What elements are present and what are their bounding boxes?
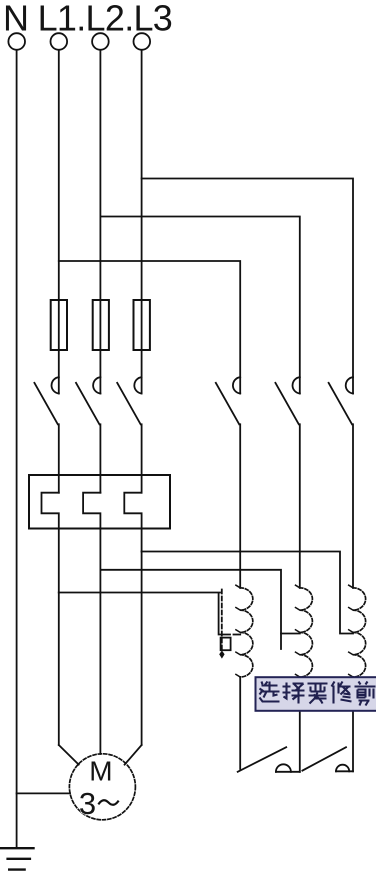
contact KM1-3 arc [134,377,141,393]
coil T2 winding (selected, dashed) [300,588,313,677]
terminal L3 [134,33,151,50]
contact KM2-3 arc [346,377,353,393]
wire L2 tap branch [100,570,281,649]
cursor pickbox [221,638,231,651]
wire L2 below contact [99,424,101,492]
wire coil2 tap horizontal [281,633,300,635]
wire coil1 bottom vertical [239,677,241,769]
contact KM2-1 arc [233,377,240,393]
fuse FU2 [93,300,109,350]
contact KM1-3 blade [117,383,140,425]
fuse FU1 [51,300,67,350]
char 择 [283,683,305,704]
wire R1 between contact and coil [239,424,241,588]
char 选 [260,682,280,702]
contact KM1-1 blade [34,383,57,425]
wire L1 tap branch [59,592,220,594]
char 修 [332,682,352,704]
contact KM2-1 blade [216,383,239,425]
tap arrow head [219,651,224,659]
overload heater 3 [124,493,141,552]
contact KM2-2 blade [275,383,298,425]
selected tap wire solid part [219,593,230,634]
wire N to motor [17,792,70,794]
wire branch L2 top horizontal [100,217,299,394]
contact KM1-2 arc [93,377,100,393]
overload heater 1 [42,493,59,593]
ground symbol [0,847,34,849]
coil T3 junction hooks [349,585,353,588]
char 剪 (clipped) [355,682,376,706]
wire L3 lower vertical [141,552,143,746]
star contact 2 run wire [336,770,353,772]
contact KM1-2 blade [76,383,99,425]
motor lead left diagonal [59,745,79,765]
wire branch L3 top horizontal [142,179,353,394]
fuse FU3 [134,300,150,350]
svg-text:M: M [89,756,112,787]
wire R2 between contact and coil [299,424,301,588]
label N L1.L2.L3 [3,0,172,39]
wire N vertical [16,50,18,848]
star contact 2 arc [336,765,349,772]
wire R3 between contact and coil [352,424,354,588]
star contact 1 arc [276,764,291,771]
coil T1 winding (selected, dashed) [240,588,253,677]
coil T1 junction hooks [236,585,240,588]
wire L1 lower vertical [58,593,60,746]
contact KM2-2 arc [293,377,300,393]
terminal L2 [92,33,109,50]
svg-text:N L1.L2.L3: N L1.L2.L3 [3,0,172,39]
wire L1 below contact [58,424,60,492]
coil T2 junction hooks [296,585,300,588]
motor lead right diagonal [125,745,142,765]
overload relay FR box [29,475,170,529]
coil T3 winding (selected, dashed) [353,588,366,677]
contact KM2-3 blade [329,383,352,425]
wire L2 vertical upper [99,50,101,394]
contact KM1-1 arc [52,377,59,393]
selected tap wire dashed highlight [221,590,223,650]
char 要 [308,684,328,704]
terminal N [8,33,25,50]
wire L1 vertical upper [58,50,60,394]
star contact 1 blade [238,747,287,772]
wire L2 lower vertical [99,570,101,754]
wire branch L1 top horizontal [59,261,240,394]
wire L3 below contact [141,424,143,492]
prompt text 选择要修剪 (drawn strokes) [260,682,376,706]
selected tap dash to coil1 [234,634,241,636]
wire coil3 bottom vertical [352,677,354,771]
wire L3 tap branch [142,552,353,634]
CAD prompt tooltip box [256,677,376,711]
wire coil2 bottom vertical [299,677,301,772]
star contact 1 run wire [276,771,300,773]
overload heater 2 [83,493,100,570]
terminal L1 [51,33,68,50]
star contact 2 blade [302,747,346,770]
wire L3 vertical upper [141,50,143,394]
motor M1 circle (selected, dashed) [69,754,135,820]
svg-text:3: 3 [79,786,96,821]
